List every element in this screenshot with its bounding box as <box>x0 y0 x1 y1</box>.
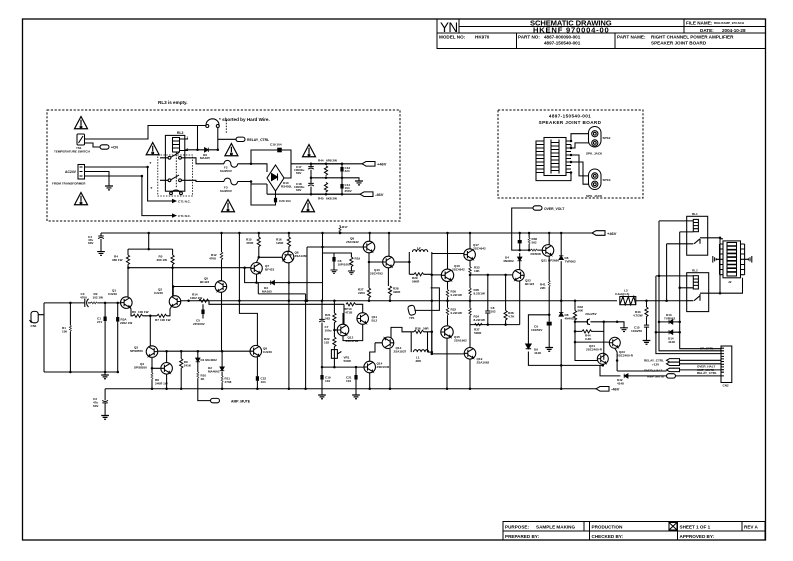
svg-text:2SA1062: 2SA1062 <box>477 361 490 365</box>
ground <box>105 186 113 190</box>
transistor Q16 <box>441 269 453 281</box>
svg-text:SPK_JACK: SPK_JACK <box>586 194 603 198</box>
latch wiring <box>575 331 617 371</box>
svg-text:SPS8550: SPS8550 <box>130 349 143 353</box>
dashed stub <box>225 120 227 133</box>
ground <box>101 416 109 420</box>
transistor Q11 <box>357 313 369 325</box>
wire fuse F3 to bridge <box>238 182 267 185</box>
resistor R34 <box>469 301 471 325</box>
junction <box>217 149 220 152</box>
svg-text:4897-150540-001: 4897-150540-001 <box>544 41 581 46</box>
bridge rectifier D10 <box>267 165 284 191</box>
Q15 collector to rail <box>446 338 448 388</box>
Q6 collector column <box>288 263 290 389</box>
svg-text:PART NO:: PART NO: <box>518 35 540 40</box>
wire AC24V pin2 to ground <box>85 172 110 187</box>
relay output wires <box>720 238 743 293</box>
diode D4 <box>518 257 522 261</box>
capacitor C1 <box>104 303 106 372</box>
inductor L2 <box>409 252 432 274</box>
svg-text:250V: 250V <box>345 189 353 193</box>
resistor R33 <box>469 260 471 275</box>
svg-text:104: 104 <box>325 379 330 383</box>
svg-text:2SC2400-R: 2SC2400-R <box>586 348 603 352</box>
Q10 collector column <box>388 233 390 256</box>
resistor R12 <box>220 233 222 281</box>
transistor Q3 <box>146 346 158 358</box>
diode D1 <box>197 351 199 372</box>
diode D9 <box>185 149 218 151</box>
svg-text:104: 104 <box>346 379 351 383</box>
relay bottom coil arc <box>170 190 183 195</box>
resistor R14 inline <box>199 299 209 302</box>
svg-text:FILE NAME:: FILE NAME: <box>686 20 713 25</box>
right wires to SPK2 <box>571 134 589 148</box>
svg-text:R19: R19 <box>355 257 361 261</box>
svg-text:6A/250V: 6A/250V <box>220 169 233 173</box>
svg-text:8.22/1W: 8.22/1W <box>474 318 485 322</box>
svg-text:J2: J2 <box>728 280 732 284</box>
warning triangle <box>225 144 238 156</box>
resistor R5 <box>172 249 174 296</box>
svg-text:0.22/1W: 0.22/1W <box>451 293 462 297</box>
transistor Q8 <box>363 241 375 253</box>
svg-text:REV A: REV A <box>744 524 759 529</box>
transistor Q7 <box>251 263 263 275</box>
junction dots <box>570 140 573 143</box>
svg-text:CT1 N.C.: CT1 N.C. <box>178 200 191 204</box>
right wires to SPK3 <box>571 155 589 184</box>
capacitor C9 <box>548 314 551 317</box>
svg-text:RIGHTAMP_970.SCH: RIGHTAMP_970.SCH <box>714 21 744 25</box>
svg-text:360 1W: 360 1W <box>112 258 123 262</box>
svg-text:47u/25V: 47u/25V <box>584 312 597 316</box>
svg-text:2004-10-28: 2004-10-28 <box>722 28 746 33</box>
input ground bus <box>44 371 118 373</box>
svg-text:100 1W: 100 1W <box>138 310 149 314</box>
fuse F2 <box>224 160 238 167</box>
svg-text:TP1: TP1 <box>409 316 415 320</box>
resistor R4 <box>127 249 129 297</box>
tail wire <box>149 316 151 346</box>
Q14 columns <box>370 343 375 389</box>
connector AC24V <box>78 165 85 180</box>
warning triangle <box>75 117 88 129</box>
transistor Q23 <box>609 337 620 348</box>
svg-text:PURPOSE:: PURPOSE: <box>505 524 529 529</box>
transistor Q10 <box>383 256 395 268</box>
resistor R38 <box>505 275 507 325</box>
svg-text:CT1 N.C.: CT1 N.C. <box>178 214 191 218</box>
diode D9 <box>528 315 602 366</box>
capacitor C12 <box>575 321 604 323</box>
connector +46V out <box>362 162 375 167</box>
warning triangle <box>146 143 159 155</box>
resistor R16 <box>288 233 290 251</box>
capacitor C22 <box>256 357 258 389</box>
svg-text:2SC4942: 2SC4942 <box>452 268 465 272</box>
zero volt mid rail <box>311 178 359 181</box>
svg-text:BL2: BL2 <box>372 319 378 323</box>
VAS base bus <box>307 233 363 301</box>
svg-text:2R0: 2R0 <box>416 359 422 363</box>
connector CN1 <box>30 311 39 322</box>
svg-text:4708: 4708 <box>225 380 232 384</box>
Q8 emitter to Q10 base <box>369 253 383 262</box>
svg-text:R26: R26 <box>415 327 421 331</box>
capacitor C17 <box>310 164 312 178</box>
svg-text:PART NAME:: PART NAME: <box>617 35 646 40</box>
svg-text:DATE:: DATE: <box>700 28 714 33</box>
inductor L3 <box>620 297 636 305</box>
resistor R26 <box>411 332 432 352</box>
resistor R6 <box>130 306 151 316</box>
dashed enclosure <box>498 110 643 198</box>
+46V top rail <box>101 232 592 234</box>
connector -46V <box>596 387 609 392</box>
svg-text:SPS8550: SPS8550 <box>134 366 147 370</box>
resistor R7 <box>150 306 171 316</box>
transistor Q4 <box>161 363 173 375</box>
wire temp switch to relay <box>85 126 207 140</box>
svg-text:4148: 4148 <box>668 340 675 344</box>
driver base bus <box>432 274 512 276</box>
svg-text:L2: L2 <box>417 246 421 250</box>
svg-text:56R: 56R <box>423 327 429 331</box>
svg-text:+CN: +CN <box>111 146 118 150</box>
svg-text:22K: 22K <box>540 286 546 290</box>
svg-text:2262 1W: 2262 1W <box>120 321 132 325</box>
svg-text:2SA1837: 2SA1837 <box>394 350 407 354</box>
svg-text:OVER_HALT: OVER_HALT <box>644 368 662 372</box>
resistor R10 <box>197 372 199 378</box>
wire AC24V pin3 <box>85 176 173 216</box>
capacitor C13 <box>340 167 343 172</box>
bias network box <box>343 304 363 340</box>
-46V bottom rail <box>105 388 596 390</box>
diode D2 <box>221 351 223 376</box>
relay feed wire RL1 pin3 to output <box>667 244 687 301</box>
connector +46V <box>592 231 605 236</box>
capacitor C7 <box>321 301 323 395</box>
svg-text:C2240: C2240 <box>263 350 272 354</box>
svg-text:2SD1046: 2SD1046 <box>377 365 390 369</box>
svg-text:2P/100V: 2P/100V <box>193 322 206 326</box>
capacitor C14 <box>340 184 343 189</box>
transistor Q12 <box>337 324 349 336</box>
bias bottom bus <box>322 366 364 368</box>
ground <box>643 341 651 345</box>
feedback line <box>209 301 344 305</box>
diode D14 <box>656 331 680 333</box>
svg-text:CHECKED BY:: CHECKED BY: <box>592 534 624 539</box>
jumper shorted circles <box>206 119 220 128</box>
Q17 collector <box>469 233 471 249</box>
svg-text:+46V: +46V <box>377 162 387 167</box>
svg-text:R45: R45 <box>318 197 324 201</box>
relay contact row 2 <box>160 175 189 182</box>
svg-text:TEMPERATURE SWITCH: TEMPERATURE SWITCH <box>54 150 90 154</box>
svg-text:100u: 100u <box>325 329 332 333</box>
resistor R21 <box>333 313 336 323</box>
junction dots on rails <box>310 163 344 196</box>
dashed enclosure <box>47 110 400 221</box>
Q16 collector <box>447 233 449 269</box>
connector RELAY_CTRL <box>218 138 236 140</box>
relay feed wire RL1 pin2 <box>680 232 721 349</box>
svg-text:R6: R6 <box>132 310 136 314</box>
resistor R28 <box>388 268 390 301</box>
speaker terminal block <box>720 241 745 278</box>
capacitor C4 <box>100 233 102 252</box>
svg-text:560R: 560R <box>412 280 420 284</box>
chassis mark left <box>713 256 720 263</box>
svg-text:10P/100V: 10P/100V <box>338 263 352 267</box>
svg-text:56K: 56K <box>578 309 584 313</box>
diode D3 <box>245 268 323 283</box>
wire Q12 base <box>334 329 337 331</box>
svg-text:241K: 241K <box>184 364 192 368</box>
svg-text:RL1: RL1 <box>692 212 698 216</box>
wire Q10 to L2 <box>394 261 409 263</box>
resistor R1 <box>69 303 71 372</box>
svg-text:CN1: CN1 <box>31 324 37 328</box>
ground <box>355 181 363 185</box>
svg-text:SPK3: SPK3 <box>603 178 611 182</box>
svg-text:102 1W: 102 1W <box>93 296 104 300</box>
svg-text:120R: 120R <box>276 241 284 245</box>
capacitor C3 <box>104 389 106 416</box>
svg-text:4148: 4148 <box>534 351 541 355</box>
svg-text:SPK_JACK: SPK_JACK <box>586 152 603 156</box>
resistor R44 <box>311 164 342 194</box>
svg-text:PREPARED BY:: PREPARED BY: <box>505 534 540 539</box>
transistor Q2 <box>169 296 181 308</box>
resistor R22 <box>333 337 336 347</box>
transistor Q9 <box>250 345 262 357</box>
svg-text:6K8 2W: 6K8 2W <box>326 197 337 201</box>
test point TP1 <box>407 288 439 316</box>
snubber C19 <box>251 150 291 164</box>
Q4 wiring <box>166 351 168 389</box>
warning triangle <box>222 200 235 212</box>
relay feed wire RL2 pin1 <box>656 276 721 354</box>
resistor R15 <box>258 233 260 257</box>
svg-text:C20 104: C20 104 <box>279 199 291 203</box>
capacitor C21 film <box>355 367 357 395</box>
temperature switch TS1 <box>77 134 85 145</box>
snubber C20 <box>251 184 276 205</box>
svg-text:YN: YN <box>440 20 459 35</box>
resistor R29 <box>409 273 432 275</box>
svg-text:R7: R7 <box>155 318 159 322</box>
svg-text:390R: 390R <box>393 290 401 294</box>
wire contact row1 to fuse F2 <box>189 158 224 164</box>
wire AC24V pin1 <box>85 167 173 201</box>
svg-text:562: 562 <box>532 241 537 245</box>
ground <box>620 328 628 332</box>
Q5 base wire <box>173 287 215 296</box>
title block top: outline <box>437 19 765 49</box>
svg-text:4K: 4K <box>201 377 206 381</box>
resistor R8 <box>152 358 160 389</box>
svg-text:4708: 4708 <box>209 257 216 261</box>
svg-text:500R: 500R <box>344 359 352 363</box>
svg-text:C2240: C2240 <box>108 292 117 296</box>
svg-text:SP_CTRL: SP_CTRL <box>700 346 714 350</box>
svg-text:-46V: -46V <box>375 192 384 197</box>
svg-text:2SC2400-R: 2SC2400-R <box>617 354 634 358</box>
wire x305 column <box>305 294 307 389</box>
connector -46V out <box>360 192 373 197</box>
svg-text:471B: 471B <box>345 311 353 315</box>
zener D8 <box>559 312 563 316</box>
connector AMP_MUTE left <box>198 378 211 400</box>
resistor R3 <box>117 303 119 372</box>
svg-text:224: 224 <box>345 169 350 173</box>
resistor R42 <box>574 301 576 322</box>
capacitor C18 <box>310 178 312 194</box>
resistor R45 <box>324 182 327 192</box>
transistor Q24 <box>597 353 608 364</box>
ground <box>97 252 105 256</box>
svg-text:PRODUCTION: PRODUCTION <box>592 524 624 529</box>
svg-text:470R: 470R <box>246 241 254 245</box>
svg-text:RL2: RL2 <box>692 269 698 273</box>
diode D13 <box>659 321 680 323</box>
connector J1 body <box>538 138 571 176</box>
svg-text:*: * <box>150 161 152 166</box>
svg-text:104/50V: 104/50V <box>531 328 543 332</box>
svg-text:500R: 500R <box>474 331 482 335</box>
svg-text:+12V: +12V <box>652 362 660 366</box>
wire Q7 to Q6 base <box>257 257 283 262</box>
svg-text:BF423: BF423 <box>265 268 274 272</box>
svg-text:104/250: 104/250 <box>631 329 642 333</box>
warning triangle <box>75 193 88 205</box>
ground <box>331 270 338 273</box>
speaker jack SPK3 <box>589 169 602 190</box>
resistor R19 <box>334 253 351 271</box>
mirror degeneration wires <box>239 233 305 345</box>
svg-text:RELAY_CTRL: RELAY_CTRL <box>697 371 717 375</box>
svg-text:102: 102 <box>324 341 329 345</box>
svg-text:8.22/1W: 8.22/1W <box>474 292 485 296</box>
svg-text:D1 MA4062: D1 MA4062 <box>201 358 218 362</box>
svg-text:APPROVED BY:: APPROVED BY: <box>680 534 715 539</box>
svg-text:2SC4942: 2SC4942 <box>346 240 359 244</box>
svg-text:2200: 2200 <box>358 291 365 295</box>
Q21 collector <box>548 233 550 245</box>
svg-text:SPEAKER JOINT BOARD: SPEAKER JOINT BOARD <box>539 120 602 125</box>
svg-text:271: 271 <box>97 320 102 324</box>
capacitor C5 <box>202 304 204 318</box>
protection bottom bus <box>470 324 520 326</box>
svg-text:3.3K: 3.3K <box>585 337 592 341</box>
column R21 R22 <box>333 301 335 367</box>
svg-text:RS405L: RS405L <box>281 185 292 189</box>
svg-text:BF423: BF423 <box>200 280 209 284</box>
resistor R11 <box>221 382 223 389</box>
svg-text:63V: 63V <box>93 404 99 408</box>
svg-text:MA165: MA165 <box>262 289 272 293</box>
resistor R30 <box>447 282 449 301</box>
wire bus to Q9 base <box>222 350 250 352</box>
resistor R27 <box>368 262 370 301</box>
relay contact row 1 <box>160 153 189 160</box>
svg-text:HKENF 970004-00: HKENF 970004-00 <box>533 26 609 35</box>
zener D6 <box>560 233 562 312</box>
svg-text:BF422: BF422 <box>525 282 534 286</box>
transistor Q15 <box>441 326 453 338</box>
diode D12 <box>600 365 667 376</box>
svg-text:0.4uH/1.5t: 0.4uH/1.5t <box>615 292 629 296</box>
wire fuse F2 to bridge <box>238 164 267 172</box>
capacitor C19 film <box>320 375 323 380</box>
svg-text:*: * <box>151 186 153 191</box>
relay actuation dashed line <box>175 152 177 188</box>
svg-text:4148: 4148 <box>617 382 624 386</box>
mirror base bus <box>128 267 250 269</box>
junction <box>196 149 199 152</box>
svg-text:10K: 10K <box>474 269 480 273</box>
output mid rail <box>181 300 617 302</box>
top bias bus <box>128 233 173 249</box>
ground <box>348 271 355 274</box>
svg-text:R44: R44 <box>318 159 324 163</box>
transistor Q13 <box>382 337 394 349</box>
svg-text:+46V: +46V <box>607 231 617 236</box>
output rail after L3 <box>636 300 687 302</box>
speaker jack SPK2 <box>589 127 602 148</box>
capacitor C16 film <box>519 233 521 270</box>
svg-text:SPK2: SPK2 <box>603 136 611 140</box>
relay contact dashed box <box>158 155 193 196</box>
svg-text:0.22/1W: 0.22/1W <box>451 311 462 315</box>
capacitor C6 <box>323 253 335 270</box>
svg-text:102: 102 <box>491 310 496 314</box>
left driver column <box>431 275 433 354</box>
svg-text:MA165: MA165 <box>200 156 210 160</box>
ground <box>352 395 360 399</box>
resistor R2 <box>91 302 97 304</box>
svg-text:6A/250V: 6A/250V <box>220 189 233 193</box>
transistor Q14 <box>364 361 376 373</box>
Q5 emitter column <box>221 292 223 351</box>
input net wire <box>44 302 85 304</box>
resistor R36 <box>528 233 530 250</box>
svg-text:100 1W: 100 1W <box>160 318 171 322</box>
wire L2 to Q17 base <box>432 253 464 255</box>
svg-text:10K: 10K <box>536 252 542 256</box>
ground <box>318 395 326 399</box>
svg-text:C2240: C2240 <box>154 291 163 295</box>
svg-text:104: 104 <box>261 380 266 384</box>
resistor R41 on Q21 emitter <box>548 256 550 315</box>
Q22 emitter <box>519 281 521 325</box>
inductor L1 <box>414 350 429 352</box>
fuse F3 <box>224 178 238 185</box>
svg-text:562: 562 <box>325 317 330 321</box>
transistor Q17 <box>464 249 476 261</box>
svg-text:OVER_VOLT: OVER_VOLT <box>544 207 565 211</box>
relay feed wire RL1 pin1 <box>659 221 721 351</box>
capacitor C15 <box>644 325 649 327</box>
chassis mark right <box>745 256 752 263</box>
svg-text:1: 1 <box>187 136 189 140</box>
CT1 N.C. marker 1 <box>172 199 177 203</box>
